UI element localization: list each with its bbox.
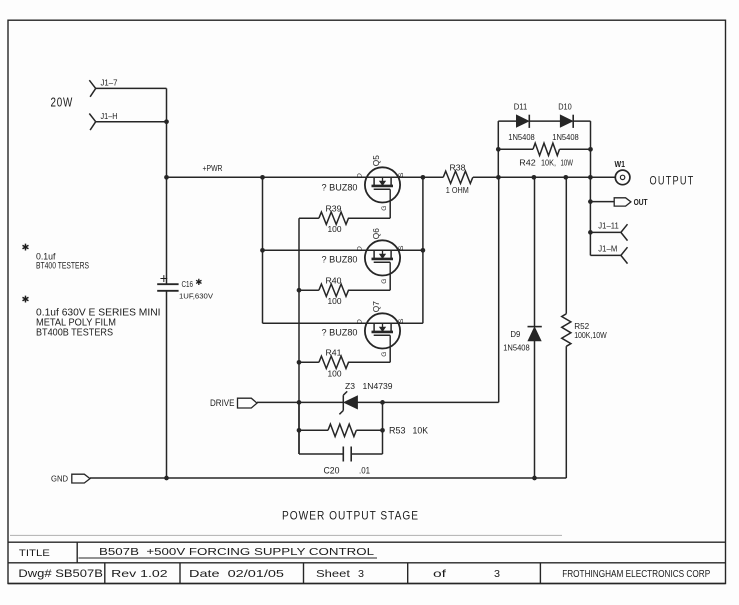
wire +PWR rail bbox=[167, 176, 616, 178]
note 0.1uf 630V bbox=[36, 307, 161, 338]
diode D11 bbox=[498, 103, 535, 142]
label 20W bbox=[51, 95, 74, 110]
svg-text:10K,: 10K, bbox=[541, 157, 556, 167]
junction R42 right bbox=[588, 147, 593, 152]
junction output node bbox=[588, 175, 593, 180]
transistor Q7 bbox=[357, 301, 405, 357]
wire input bus vertical bbox=[166, 88, 168, 284]
title block of bbox=[433, 569, 500, 580]
title text B507B bbox=[99, 547, 375, 558]
label Q6 BUZ80 bbox=[322, 254, 358, 264]
svg-text:R39: R39 bbox=[326, 203, 342, 213]
wire diode branch left vertical bbox=[497, 121, 499, 177]
svg-text:100K,10W: 100K,10W bbox=[574, 330, 607, 340]
label +PWR bbox=[203, 164, 223, 173]
svg-text:of: of bbox=[433, 569, 446, 580]
wire drain Q6 row bbox=[263, 249, 423, 251]
svg-text:10K: 10K bbox=[413, 426, 429, 436]
wire R52 vertical bbox=[565, 177, 567, 478]
junction OUT row bbox=[588, 199, 593, 204]
wire Q5 gate lead bbox=[348, 202, 390, 218]
svg-text:1UF,630V: 1UF,630V bbox=[179, 292, 213, 301]
svg-text:R38: R38 bbox=[450, 163, 466, 173]
junction R52 top bbox=[563, 175, 568, 180]
svg-text:3: 3 bbox=[494, 569, 500, 580]
svg-text:100: 100 bbox=[328, 296, 342, 306]
svg-text:100: 100 bbox=[328, 224, 342, 234]
svg-text:C20: C20 bbox=[324, 465, 340, 475]
junction GND D9 bbox=[532, 476, 537, 481]
wire R40 to bus bbox=[299, 289, 319, 291]
svg-text:1N4739: 1N4739 bbox=[363, 381, 393, 391]
resistor R38 bbox=[443, 163, 473, 195]
svg-text:3: 3 bbox=[358, 569, 364, 580]
caption POWER OUTPUT STAGE bbox=[282, 509, 419, 523]
scan artifact line bbox=[10, 534, 562, 536]
svg-text:10W: 10W bbox=[561, 157, 574, 167]
wire gate bus bbox=[298, 218, 300, 454]
junction R38 right bbox=[496, 175, 501, 180]
junction GND C16 bbox=[164, 476, 169, 481]
zener Z3 bbox=[339, 381, 392, 414]
svg-text:✱: ✱ bbox=[22, 295, 30, 306]
svg-text:? BUZ80: ? BUZ80 bbox=[322, 327, 358, 337]
svg-text:D: D bbox=[357, 246, 364, 251]
junction drain Q6 bbox=[260, 248, 265, 253]
title block Date bbox=[189, 569, 284, 580]
svg-text:OUT: OUT bbox=[634, 197, 649, 207]
label Q7 BUZ80 bbox=[322, 327, 358, 337]
resistor R52 bbox=[562, 314, 607, 347]
svg-text:R42: R42 bbox=[519, 157, 536, 167]
svg-text:J1–M: J1–M bbox=[598, 244, 617, 253]
svg-text:G: G bbox=[381, 351, 388, 356]
testpoint W1 bbox=[615, 160, 630, 185]
svg-text:Z3: Z3 bbox=[345, 381, 355, 391]
svg-text:FROTHINGHAM ELECTRONICS CORP: FROTHINGHAM ELECTRONICS CORP bbox=[562, 569, 710, 580]
svg-text:BT400 TESTERS: BT400 TESTERS bbox=[36, 260, 89, 271]
resistor R39 bbox=[319, 203, 349, 234]
flag GND bbox=[51, 474, 90, 484]
connector J1-7 bbox=[89, 79, 117, 97]
svg-text:Q6: Q6 bbox=[371, 228, 381, 239]
svg-text:100: 100 bbox=[328, 368, 342, 378]
wire R41 to bus bbox=[299, 361, 319, 363]
wire J1-H to bus bbox=[96, 121, 167, 123]
svg-text:✱: ✱ bbox=[22, 243, 30, 254]
svg-text:BT400B TESTERS: BT400B TESTERS bbox=[36, 328, 113, 339]
wire R53 right vertical bbox=[382, 402, 384, 454]
capacitor C20 bbox=[299, 447, 383, 476]
junction Z3 right bbox=[380, 400, 385, 405]
svg-text:+PWR: +PWR bbox=[203, 164, 223, 173]
title block TITLE bbox=[19, 548, 50, 559]
junction J1-11 row bbox=[588, 230, 593, 235]
svg-text:Date 02/01/05: Date 02/01/05 bbox=[189, 569, 284, 580]
transistor Q6 bbox=[357, 228, 405, 284]
svg-text:J1–7: J1–7 bbox=[101, 79, 118, 88]
svg-text:R41: R41 bbox=[326, 347, 342, 357]
svg-text:G: G bbox=[381, 205, 388, 210]
wire output column bbox=[589, 177, 591, 255]
wire diode branch right vertical bbox=[590, 121, 592, 177]
transistor Q5 bbox=[357, 155, 405, 211]
wire Q7 gate lead bbox=[348, 348, 390, 362]
svg-text:1N5408: 1N5408 bbox=[503, 344, 530, 353]
svg-text:D9: D9 bbox=[510, 330, 520, 339]
flag DRIVE bbox=[210, 398, 257, 408]
wire Z3 to riser bbox=[357, 401, 498, 403]
svg-text:Rev 1.02: Rev 1.02 bbox=[111, 569, 168, 580]
wire drain Q7 row bbox=[263, 322, 423, 324]
svg-text:J1–11: J1–11 bbox=[598, 221, 619, 230]
note 0.1uf BT400 bbox=[36, 252, 89, 272]
title underline bbox=[79, 557, 378, 559]
wire C16 to GND bbox=[166, 291, 168, 478]
junction source Q6 bbox=[421, 248, 426, 253]
junction source bus top bbox=[421, 175, 426, 180]
svg-text:.01: .01 bbox=[359, 465, 370, 475]
svg-text:1N5408: 1N5408 bbox=[552, 133, 579, 142]
svg-text:GND: GND bbox=[51, 474, 68, 484]
label OUTPUT bbox=[650, 175, 695, 187]
svg-text:C16: C16 bbox=[182, 280, 194, 289]
junction R53 right bbox=[380, 428, 385, 433]
junction J1 bus bbox=[164, 119, 169, 124]
wire J1-M lead bbox=[590, 254, 621, 256]
svg-text:Q5: Q5 bbox=[371, 155, 381, 166]
junction drain bus top bbox=[260, 175, 265, 180]
svg-text:Q7: Q7 bbox=[371, 301, 381, 312]
label Q5 BUZ80 bbox=[322, 182, 358, 192]
svg-text:TITLE: TITLE bbox=[19, 548, 50, 559]
diode D9 bbox=[503, 327, 542, 353]
svg-text:Sheet: Sheet bbox=[316, 569, 350, 580]
svg-text:G: G bbox=[381, 278, 388, 283]
svg-text:? BUZ80: ? BUZ80 bbox=[322, 254, 358, 264]
wire R53 left vertical bbox=[298, 402, 300, 454]
wire drain bus bbox=[262, 177, 264, 323]
svg-text:W1: W1 bbox=[615, 160, 626, 169]
junction +PWR left bbox=[164, 175, 169, 180]
wire riser to rail bbox=[498, 177, 500, 402]
junction R41 bus bbox=[297, 360, 302, 365]
wire GND rail bbox=[90, 477, 566, 479]
svg-text:D: D bbox=[357, 319, 364, 324]
wire source bus bbox=[422, 177, 424, 323]
junction R42 left bbox=[496, 147, 501, 152]
resistor R53 bbox=[299, 424, 428, 436]
svg-text:J1–H: J1–H bbox=[101, 112, 118, 121]
svg-text:POWER OUTPUT STAGE: POWER OUTPUT STAGE bbox=[282, 509, 419, 523]
capacitor C16 bbox=[157, 270, 213, 300]
svg-text:1 OHM: 1 OHM bbox=[446, 185, 469, 195]
junction R40 bus bbox=[297, 288, 302, 293]
wire J1-7 to bus bbox=[96, 87, 167, 89]
junction DRIVE gate bus bbox=[297, 400, 302, 405]
title block company bbox=[562, 569, 710, 580]
title block Sheet bbox=[316, 569, 364, 580]
svg-text:B507B +500V FORCING SUPPLY CO: B507B +500V FORCING SUPPLY CONTROL bbox=[99, 547, 375, 558]
svg-text:? BUZ80: ? BUZ80 bbox=[322, 182, 358, 192]
resistor R40 bbox=[319, 275, 349, 306]
svg-text:D10: D10 bbox=[558, 103, 572, 112]
svg-text:20W: 20W bbox=[51, 95, 74, 110]
wire Q6 gate lead bbox=[348, 275, 390, 290]
svg-text:Dwg# SB507B: Dwg# SB507B bbox=[18, 568, 103, 580]
flag OUT bbox=[614, 197, 648, 207]
resistor R41 bbox=[319, 347, 349, 378]
svg-text:✱: ✱ bbox=[195, 277, 202, 287]
wire J1-11 lead bbox=[590, 231, 621, 233]
connector J1-H bbox=[89, 112, 117, 130]
note asterisk 1 bbox=[22, 243, 30, 254]
svg-text:OUTPUT: OUTPUT bbox=[650, 175, 695, 187]
svg-text:+: + bbox=[160, 270, 168, 286]
connector J1-M bbox=[598, 244, 627, 263]
junction R53 left bbox=[297, 428, 302, 433]
svg-text:R53: R53 bbox=[389, 426, 406, 436]
title block Dwg# bbox=[18, 568, 103, 580]
title block grid bbox=[8, 542, 726, 583]
svg-text:DRIVE: DRIVE bbox=[210, 398, 235, 408]
svg-text:D11: D11 bbox=[514, 103, 528, 112]
note asterisk 2 bbox=[22, 295, 30, 306]
title block Rev bbox=[111, 569, 168, 580]
diode D10 bbox=[529, 103, 590, 142]
svg-text:S: S bbox=[398, 172, 405, 177]
svg-text:S: S bbox=[398, 318, 405, 323]
svg-text:S: S bbox=[398, 245, 405, 250]
wire DRIVE to Z3 bbox=[257, 401, 343, 403]
wire OUT lead bbox=[590, 201, 614, 203]
wire R39 to bus bbox=[299, 217, 319, 219]
svg-text:1N5408: 1N5408 bbox=[508, 133, 535, 142]
svg-text:R40: R40 bbox=[326, 275, 342, 285]
junction D9 top bbox=[532, 175, 537, 180]
wire D9 vertical bbox=[534, 177, 536, 478]
connector J1-11 bbox=[598, 221, 627, 240]
resistor R42 bbox=[498, 143, 590, 167]
svg-text:D: D bbox=[357, 173, 364, 178]
